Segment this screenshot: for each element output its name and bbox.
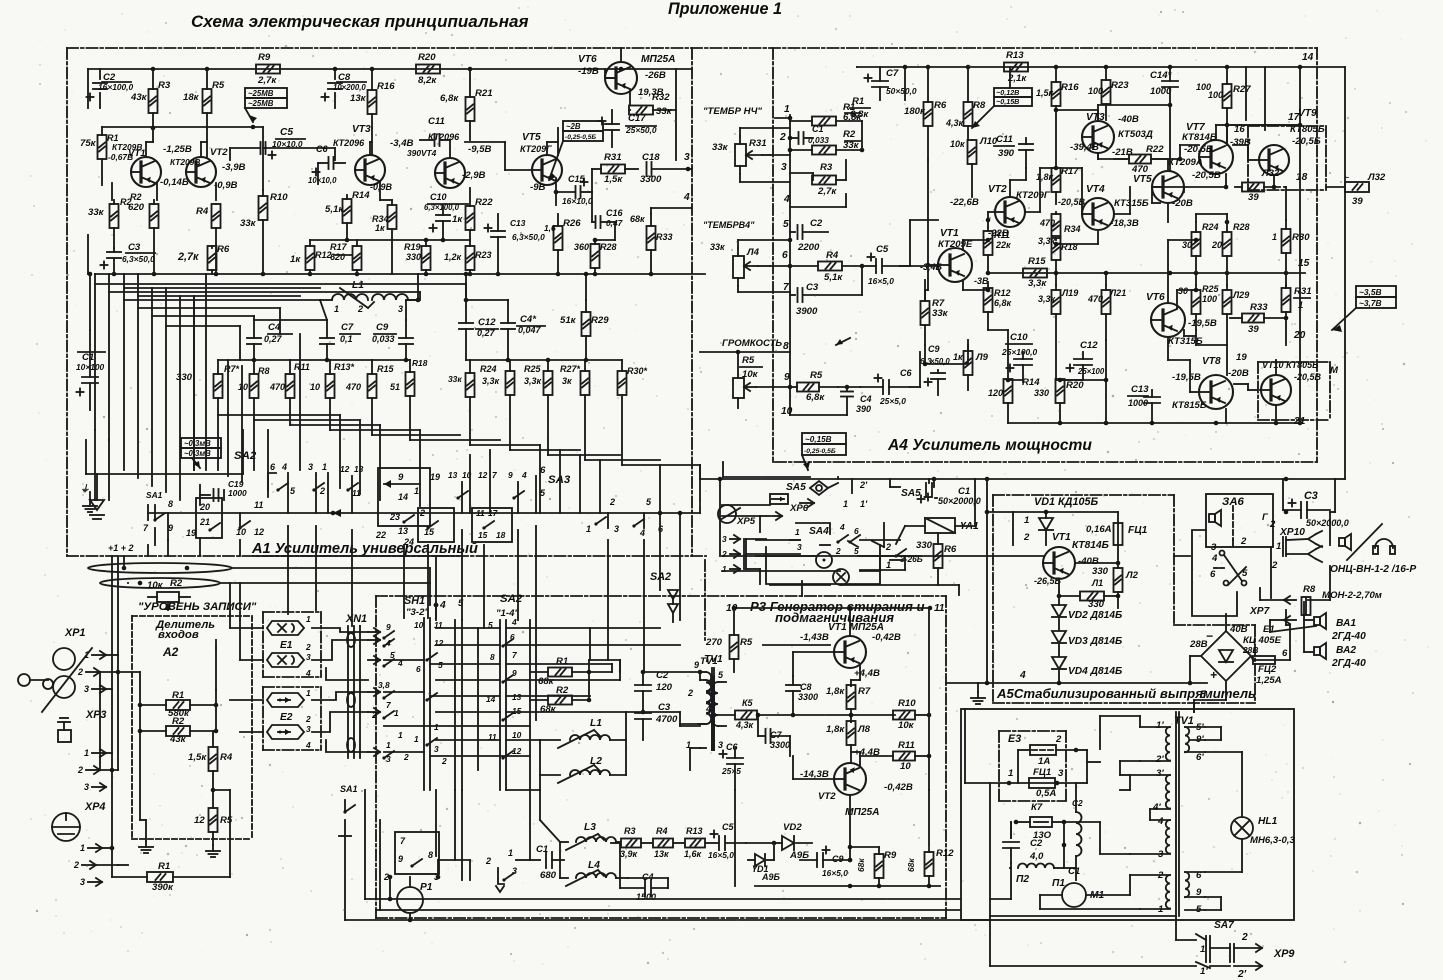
svg-text:1: 1 [334,304,339,314]
capacitor C7 f [320,320,360,360]
svg-text:-20,5Б: -20,5Б [1292,136,1321,147]
svg-text:L1: L1 [590,718,602,729]
svg-text:-20В: -20В [1172,198,1193,209]
label R1 a4 [850,96,870,120]
svg-text:~2В: ~2В [566,122,581,131]
resistor R18 f [390,358,428,440]
resistor R5 [183,69,225,128]
svg-text:75к: 75к [80,138,97,149]
svg-text:16×5,0: 16×5,0 [868,276,894,286]
svg-text:R5: R5 [810,370,823,381]
svg-text:R9: R9 [258,52,271,63]
svg-text:1: 1 [1008,768,1013,779]
svg-text:С1: С1 [1068,866,1080,877]
svg-text:9: 9 [398,854,403,864]
svg-text:390: 390 [856,404,871,414]
transistor VT6 [578,54,676,98]
svg-text:3,3к: 3,3к [1038,294,1056,304]
svg-text:6,8к: 6,8к [850,109,869,120]
svg-text:3: 3 [306,724,311,734]
svg-text:12: 12 [254,527,264,537]
inductor P2 [1010,822,1066,885]
wire gen top links [435,605,437,620]
fuse FC1 ps [1007,767,1076,799]
resistor R15 f [345,360,395,435]
svg-text:С6: С6 [726,742,738,752]
svg-text:18: 18 [1296,172,1308,183]
svg-text:4: 4 [521,470,527,480]
wire ps mid rails [965,709,1150,854]
svg-text:VТ2: VТ2 [210,147,228,158]
svg-text:-20,5В: -20,5В [1294,372,1322,382]
connector XP4 [73,801,118,887]
svg-text:ХР6: ХР6 [789,503,809,514]
svg-text:Е1: Е1 [1263,624,1275,635]
wire xp5 links [746,539,800,584]
wire bus479 stubs [700,67,975,556]
svg-text:33к: 33к [240,218,257,229]
wire xp to A1 [112,556,124,655]
svg-text:1: 1 [322,462,327,472]
label pin17 [1288,67,1302,127]
svg-text:С5: С5 [876,244,889,255]
wire right col [1329,512,1331,545]
svg-text:4: 4 [1157,816,1164,827]
svg-text:VТ2: VТ2 [988,184,1007,195]
svg-text:3: 3 [797,542,802,552]
svg-text:1,5к: 1,5к [1036,88,1054,98]
svg-text:~0,3мВ: ~0,3мВ [184,449,211,458]
capacitor C10 a4b [1001,332,1038,380]
switch SA4 [795,522,860,585]
svg-text:330: 330 [916,540,933,551]
svg-text:1: 1 [784,104,790,115]
svg-text:С4: С4 [642,872,654,882]
meter box 2V [549,121,603,180]
svg-text:ХР9: ХР9 [1273,948,1294,960]
svg-text:3: 3 [398,304,403,314]
svg-text:R25: R25 [524,364,542,374]
svg-text:VТ5: VТ5 [522,132,541,143]
svg-text:~25МВ: ~25МВ [248,99,274,108]
resistor R25 f [524,360,553,455]
svg-text:ХN1: ХN1 [345,613,367,625]
wire c5 right [266,148,335,160]
tv1 primary w4 [1130,870,1170,915]
svg-text:Л1: Л1 [1091,578,1103,588]
tv1 secondary w2 [1185,870,1205,915]
capacitor C1 tone [790,124,829,145]
svg-text:1: 1 [306,688,311,698]
svg-text:2: 2 [1241,932,1248,943]
svg-text:КТ503Д: КТ503Д [1118,129,1153,140]
svg-text:Л8: Л8 [857,724,871,735]
svg-text:С15: С15 [568,174,586,184]
svg-text:А9Б: А9Б [761,872,781,882]
svg-text:1к: 1к [290,254,301,265]
fuse FC1 a5 [1086,523,1148,565]
svg-text:R15: R15 [1028,256,1046,267]
resistor R23 a4 [1088,67,1129,120]
switch SA1 gen [339,784,358,836]
switch SA5 contact2 [885,526,906,570]
wire a1 col drops [206,274,420,506]
svg-text:2,7к: 2,7к [817,186,837,197]
block A1 border [67,48,1317,556]
resistor R19 a1 [404,240,431,274]
capacitor C19 [200,479,247,505]
svg-text:1А: 1А [1038,756,1050,767]
block A2 border [132,616,252,839]
svg-text:1: 1 [80,843,85,853]
wire bridge to ps [1194,681,1226,712]
transistor VT3 a4 [1070,112,1153,158]
svg-text:R13: R13 [686,826,703,836]
svg-text:5,1к: 5,1к [824,272,843,283]
transformer TV1 osc [686,654,726,750]
svg-text:R33: R33 [1250,302,1268,313]
svg-text:330: 330 [1034,388,1049,398]
switch group r12 [472,470,512,542]
diode VD3 a5 [1052,631,1122,656]
svg-text:4: 4 [305,740,311,750]
resistor R4a [196,204,221,274]
wire main switch bus [148,509,700,517]
svg-text:2,7к: 2,7к [177,251,199,263]
svg-text:R2: R2 [170,578,183,589]
svg-text:R22: R22 [1146,144,1164,155]
resistor R34 [372,200,397,274]
svg-text:R6: R6 [217,244,230,255]
svg-text:VТ5: VТ5 [1133,174,1152,185]
capacitor C2 [87,69,134,108]
svg-text:1,6: 1,6 [544,223,556,233]
svg-text:С18: С18 [642,152,660,163]
headphones icon [1339,524,1395,560]
label SA2 right [650,571,671,583]
transistor VT5 [520,128,562,193]
wire 68k join [589,660,620,700]
svg-text:Л2: Л2 [1125,570,1139,581]
fuse FC2 a5 [1251,656,1290,686]
svg-text:4: 4 [705,704,711,714]
wire tone pins col [789,115,791,415]
wire xp vertical bus [100,655,120,848]
label E3 [1008,733,1021,745]
wire spk links [1304,602,1314,652]
resistor R18 a4 [1038,236,1078,273]
svg-text:R7: R7 [858,686,871,697]
resistor R4b tone [790,250,864,283]
svg-text:+1 + 2: +1 + 2 [108,543,134,553]
svg-text:4,0: 4,0 [1029,851,1044,862]
bridge rectifier E1 [1189,624,1288,682]
wire matrix h1 [360,605,436,626]
wire a4 vt links6 [1054,187,1230,246]
wire filt out rows [218,415,700,465]
svg-text:R6: R6 [934,100,947,111]
svg-text:33к: 33к [88,207,105,218]
svg-text:2: 2 [1023,532,1030,543]
svg-text:3,8: 3,8 [378,680,390,690]
svg-text:-20,5В: -20,5В [1192,170,1221,181]
wire vt8 links [1196,345,1227,375]
svg-text:9: 9 [398,472,404,483]
svg-text:L3: L3 [584,822,596,833]
svg-text:50×2000,0: 50×2000,0 [1306,518,1349,528]
resistor R12 a4 [984,282,1012,330]
resistor R28 a4 [1211,222,1250,273]
tape head E1b [267,640,311,678]
svg-text:С12: С12 [478,317,496,328]
svg-text:R23: R23 [1111,80,1129,91]
svg-text:R33: R33 [656,232,673,242]
svg-text:R19: R19 [404,242,421,252]
svg-text:L1: L1 [352,280,364,291]
resistor R20 [416,52,440,86]
svg-text:270: 270 [705,637,723,648]
svg-text:7: 7 [492,470,497,480]
label pin18 [1296,172,1308,183]
svg-text:2: 2 [403,752,409,762]
switch group r9 [508,470,527,513]
capacitor C9 gen [800,847,852,879]
svg-text:10: 10 [414,620,424,630]
svg-text:R22: R22 [475,197,493,208]
svg-text:R28: R28 [1233,222,1250,232]
transformer TV1 gen [698,656,724,750]
svg-text:1: 1 [1276,541,1281,552]
wire mid bus a4 [1023,258,1310,275]
wire ps bottom rails [990,783,1176,916]
pin4 tone [783,194,846,207]
connector XP3 [77,709,118,792]
wire r4 tone ends [738,238,792,292]
svg-text:1500: 1500 [636,892,656,902]
wire bus stub left [80,484,148,520]
svg-text:2: 2 [721,549,727,559]
cable screens [88,563,232,588]
label pin20 [1293,330,1306,341]
tv1 secondary w1 [1185,722,1205,763]
svg-text:10к: 10к [147,580,164,591]
resistor R4 a2 [188,731,233,790]
svg-text:VТ6: VТ6 [1146,292,1165,303]
resistor R11 p3 [860,740,929,772]
svg-text:-19,5В: -19,5В [1188,318,1217,329]
svg-text:14: 14 [398,492,408,502]
svg-text:С4: С4 [268,322,281,333]
svg-text:1,2к: 1,2к [444,252,462,262]
svg-text:1,5к: 1,5к [188,752,207,763]
svg-text:-18,3В: -18,3В [1110,218,1139,229]
svg-text:Схема электрическая принципи: Схема электрическая принципиальная [191,12,528,31]
capacitor C1 50x2000 [925,486,981,506]
svg-text:R26: R26 [563,218,581,229]
box VT10 heatsink [1258,362,1330,420]
capacitor C11 a4 [994,134,1033,168]
svg-text:ХР1: ХР1 [64,627,85,639]
svg-text:1000: 1000 [228,488,247,498]
svg-text:VТ1: VТ1 [1052,532,1071,543]
svg-text:R13*: R13* [334,362,355,372]
resistor R9 [256,52,280,86]
svg-text:0,033: 0,033 [372,334,395,344]
transistor VT9 a4 [1259,108,1325,175]
svg-text:13: 13 [512,692,522,702]
capacitor C6 tone [860,368,912,406]
switch group b3 [340,464,364,513]
resistor R6 330 [916,533,957,585]
resistor R29 a4 [1223,285,1250,345]
wire ps extra [965,709,1076,880]
svg-text:18к: 18к [183,92,200,103]
wire bottom long rails [365,790,960,910]
switch group mid9 [375,468,440,547]
svg-text:5: 5 [783,219,789,230]
svg-text:30: 30 [1182,240,1192,250]
svg-text:-40В: -40В [1118,114,1139,125]
resistor R33 a4 [1230,302,1286,335]
svg-text:-22,6В: -22,6В [950,197,979,208]
svg-text:5: 5 [458,598,464,609]
svg-text:330: 330 [176,372,193,383]
svg-text:3,9к: 3,9к [620,849,638,859]
wire a4 top bus [857,52,1314,69]
connector XP9 [1230,932,1294,980]
svg-text:R15: R15 [377,364,395,374]
svg-text:~0,3мВ: ~0,3мВ [184,439,211,448]
svg-text:R11: R11 [898,740,915,751]
diode VD1 a5b [1023,496,1098,545]
diode VD1 zener [748,841,781,882]
pin5 tone [783,219,795,232]
svg-text:8,2к: 8,2к [418,75,437,86]
svg-text:2: 2 [779,132,786,143]
svg-text:40В: 40В [1229,624,1248,635]
svg-text:R11: R11 [294,362,310,372]
resistor R8 p3 [826,713,871,763]
svg-text:14: 14 [1302,52,1314,63]
svg-text:А2: А2 [162,645,179,659]
svg-text:SА2: SА2 [650,571,671,583]
svg-text:13к: 13к [654,849,669,859]
svg-text:10: 10 [726,603,738,614]
diode VD2 a5 [1052,592,1122,630]
capacitor C12 a4 [1067,340,1105,380]
resistor R8 f [238,360,270,420]
svg-text:Приложение 1: Приложение 1 [668,0,782,18]
svg-text:16×5,0: 16×5,0 [822,868,848,878]
wire xp4 lines [112,848,128,877]
svg-text:-0,67В: -0,67В [108,152,133,162]
svg-text:VD3 Д814Б: VD3 Д814Б [1068,636,1122,647]
svg-text:1': 1' [1156,720,1164,731]
svg-text:С2: С2 [1072,798,1083,808]
capacitor C17 [599,110,657,147]
svg-text:39: 39 [1248,324,1259,335]
resistor R22 a1 [452,188,493,240]
wire a1 out [593,238,615,243]
svg-text:1: 1 [84,748,89,758]
svg-text:1: 1 [414,734,419,744]
svg-text:R13: R13 [1006,50,1024,61]
resistor R7 ps [1016,802,1064,841]
svg-text:С11: С11 [996,134,1013,145]
resistor R10 [240,127,288,274]
svg-text:10: 10 [310,382,320,392]
capacitor C7 a4 [865,67,917,100]
svg-text:VТ1: VТ1 [940,228,959,239]
svg-text:4700: 4700 [655,714,678,725]
svg-text:Л4: Л4 [746,247,760,258]
svg-text:Л32: Л32 [1261,168,1280,179]
capacitor C1 bus plates [918,479,933,503]
resistor R17 a1 [330,240,362,274]
block P3 border [376,596,946,918]
svg-text:-19,5В: -19,5В [1172,372,1201,383]
ground a2 1 [139,820,153,853]
svg-text:13: 13 [398,526,408,536]
resistor K5 4.3k [712,698,790,730]
resistor R9 a4 [953,340,989,390]
resistor R2 a5 [1092,563,1139,608]
svg-text:39: 39 [1248,192,1259,203]
svg-text:0,27: 0,27 [264,334,283,344]
svg-text:-3,9В: -3,9В [222,162,246,173]
capacitor C3 4700 [635,702,678,740]
svg-text:С17: С17 [628,113,646,124]
svg-text:R2: R2 [843,129,856,140]
switch group 10-12 [236,500,264,537]
svg-text:R4: R4 [196,206,209,217]
tape head E2a [267,688,311,707]
svg-text:4: 4 [385,638,391,648]
svg-text:R1: R1 [852,96,864,107]
wire a4 vt links4 [986,166,1083,223]
svg-text:А5Стабилизированный выпрямител: А5Стабилизированный выпрямитель [996,686,1256,701]
svg-text:С6: С6 [316,144,328,154]
svg-text:SА7: SА7 [1214,920,1235,931]
resistor R22 a4 [1114,144,1180,175]
svg-text:6,8к: 6,8к [440,93,459,104]
svg-text:68к: 68к [540,704,557,715]
svg-text:19: 19 [1236,352,1247,363]
svg-text:1': 1' [1200,966,1208,977]
capacitor C9 a4 [920,344,950,395]
resistor R24 f [480,360,515,450]
subtitle Приложение 1 [668,0,782,18]
svg-text:С11: С11 [428,116,445,127]
svg-text:С7: С7 [770,730,782,740]
transistor VT2 [170,147,246,191]
wire matrix cross rows [384,628,530,756]
svg-text:100: 100 [1202,294,1217,304]
svg-text:R14: R14 [1022,377,1040,388]
capacitor C2 120 [635,670,673,712]
capacitor C14 a4 [1150,67,1211,105]
wire left col2 [88,272,93,330]
svg-text:SА1: SА1 [340,784,358,794]
pot R5 tone [733,350,790,408]
svg-text:2: 2 [687,688,693,698]
fuse TA [1018,734,1078,783]
svg-text:25×100,0: 25×100,0 [1001,347,1038,357]
svg-text:2: 2 [1055,734,1062,745]
wire gen links [506,740,540,790]
svg-text:FЦ2: FЦ2 [1258,664,1277,675]
wire ya1 right [974,479,976,526]
